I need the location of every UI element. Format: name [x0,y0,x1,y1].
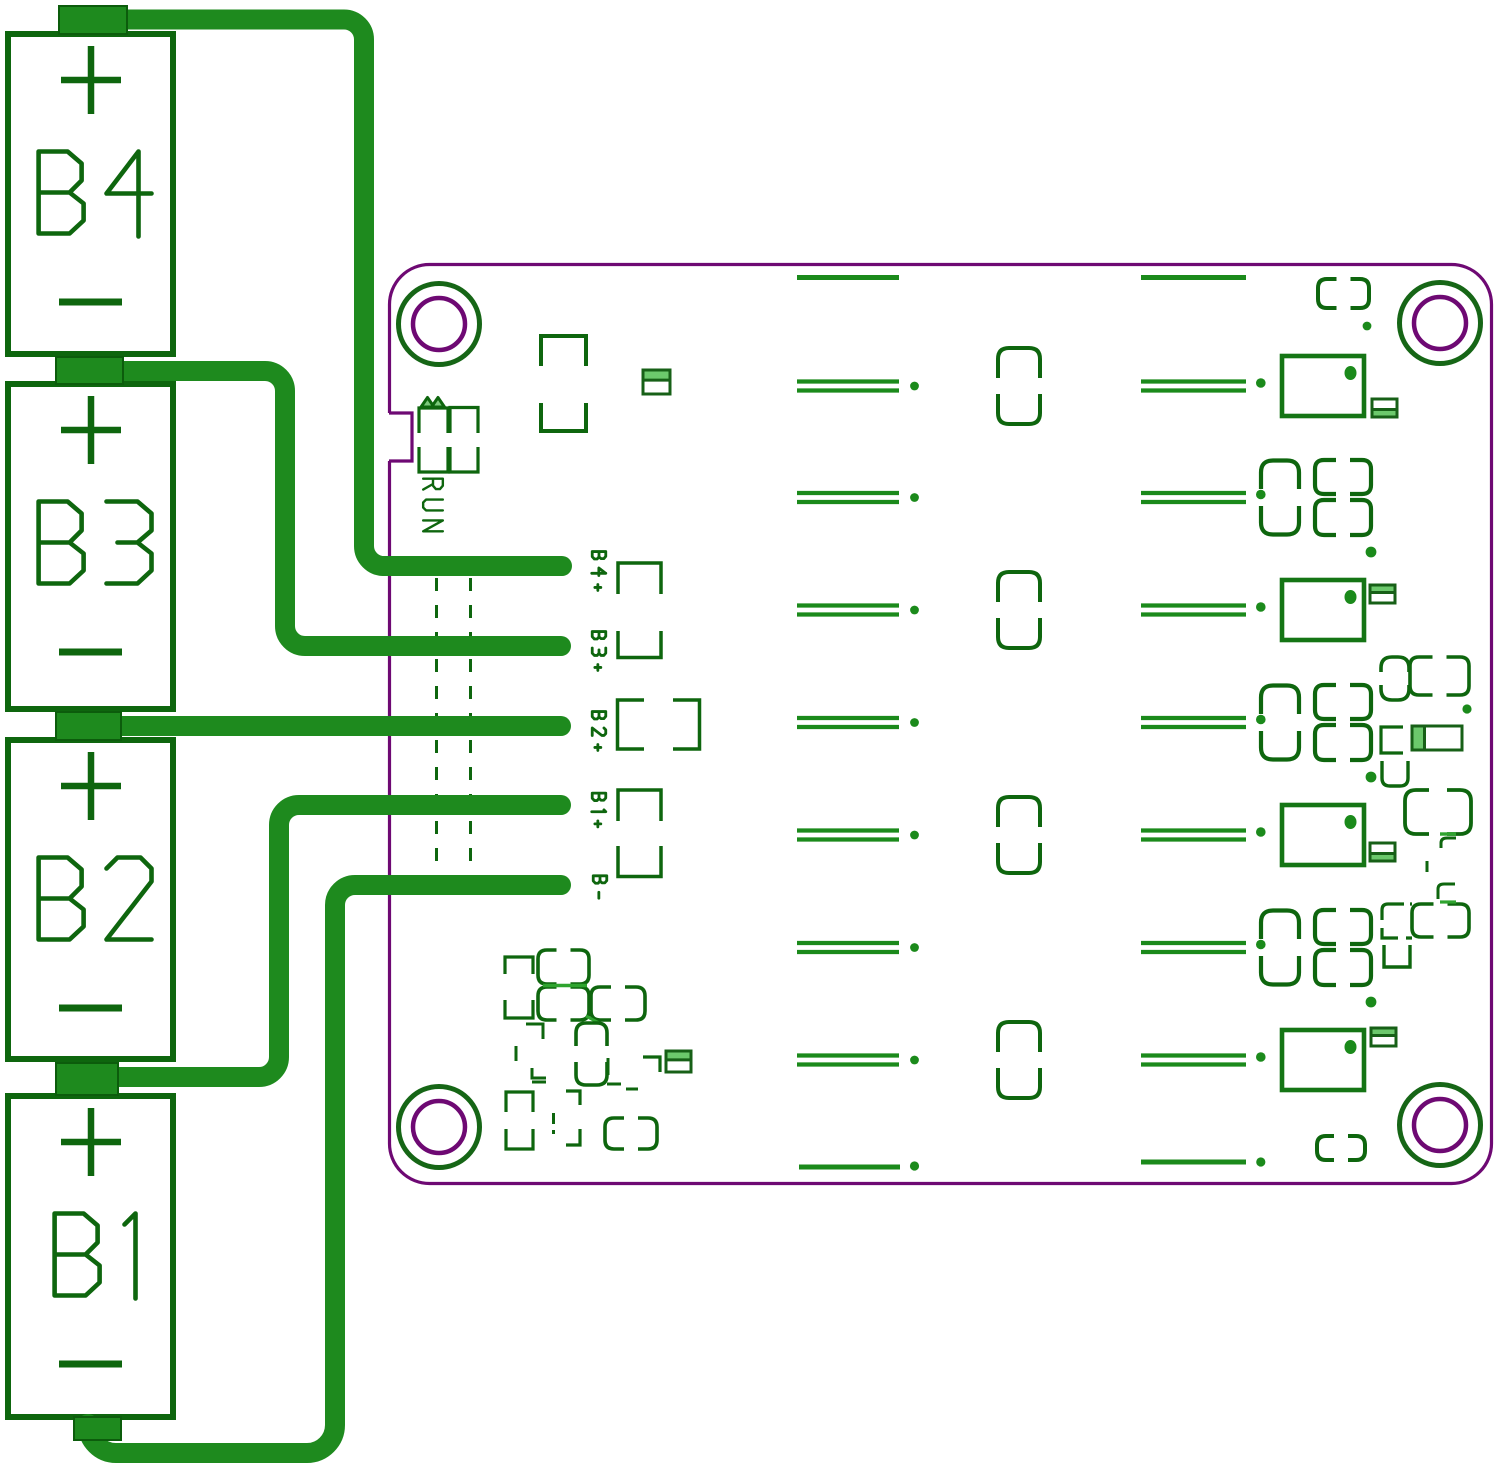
pad B3+ [618,631,661,658]
silk double line left y386 [797,382,919,391]
battery B4 minus symbol [59,299,122,306]
wire B3+ net [75,371,561,646]
silk dash b [1438,884,1455,899]
battery B2 body [8,740,173,1059]
silk line top-left [797,275,899,280]
Q1 pin mark [1440,832,1456,835]
silk double line right y722 [1141,715,1266,727]
B3 positive terminal tab [56,357,123,384]
junction dot y947 [1366,997,1377,1008]
silk double line right y610 [1141,602,1266,614]
label B4+ [592,552,606,591]
pad pair bl-6 [605,1118,657,1149]
silk dash a [1426,861,1429,872]
mounting hole H1 [399,284,480,365]
pad B2+ left [618,700,645,749]
bracket bl-4 [516,1024,546,1082]
pad B- [618,846,661,877]
silk double line left y610 [797,606,919,615]
pad B2+ right [673,700,700,749]
bright mark cluster2 [1440,900,1456,903]
silk line bottom-right [1141,1157,1265,1166]
label RUN [423,479,443,532]
IC U3 courtyard [1382,904,1412,938]
bright link bl-1 [543,984,587,988]
silk corner a [1441,838,1456,848]
IC U2 courtyard [1381,657,1409,700]
dual pad courtyard y947 [1315,910,1371,985]
battery B1 plus symbol [61,1108,121,1176]
battery B4 label [39,152,152,237]
pad B4+ [618,563,661,594]
dashed courtyard line 2 [469,578,472,898]
mounting hole H2 [1400,283,1481,364]
capacitor courtyard bl [576,1023,607,1085]
resistor R y386 [1282,356,1364,416]
silk double line right y835 [1141,827,1266,839]
diode courtyard y497 [1261,461,1299,535]
bright link bl-2 [586,1016,599,1023]
IC U4 courtyard [505,957,533,1018]
bracket below R7 [1382,761,1408,786]
pad pair right cluster2 [1412,904,1469,937]
silk double line left y497 [797,493,919,502]
pad pair bl-1 [538,950,589,984]
capacitor courtyard mid y610 [998,572,1040,648]
diode courtyard y947 [1261,911,1299,985]
pad pair right of U2 [1410,657,1469,695]
capacitor courtyard bottom-right [1317,1136,1365,1160]
label B2+ [592,712,606,751]
small pad component y386 [1372,399,1397,417]
battery B2 label [39,858,152,940]
battery B1 body [8,1096,173,1417]
battery B1 minus symbol [59,1361,122,1368]
wire B4+ net [75,20,562,567]
IC U5 courtyard [506,1092,533,1149]
dashed courtyard line 1 [435,578,438,898]
battery B3 plus symbol [61,396,121,464]
pad pair bl-3 [591,987,645,1020]
small pad component y835 [1370,843,1395,861]
bracket below cluster2 [1384,945,1410,967]
small pad component bl [666,1051,691,1072]
switch SW1 body [419,408,478,473]
resistor R y1060 [1282,1030,1364,1090]
pad pair bl-2 [538,987,589,1020]
label B3+ [592,632,606,671]
B1 negative terminal tab [74,1417,121,1440]
connector J2 courtyard [541,336,586,431]
junction dot y722 [1366,772,1377,783]
resistor R y835 [1282,805,1364,865]
diode courtyard y722 [1261,686,1299,760]
battery B4 body [8,34,173,354]
silk double line left y1060 [797,1056,919,1065]
mounting hole H4 [1400,1085,1481,1166]
silk bits bl [607,1058,621,1084]
battery B2 minus symbol [59,1005,122,1012]
capacitor courtyard mid y386 [998,348,1040,424]
PCB board outline [390,265,1492,1184]
bracket bl5 [566,1091,580,1145]
silk double line left y835 [797,831,919,840]
label B1+ [592,793,606,827]
dual pad courtyard y722 [1315,685,1371,760]
board edge notch for RUN switch [385,413,412,461]
B4 positive terminal tab [59,6,127,34]
dot right cluster [1462,704,1471,713]
capacitor courtyard top-right [1318,279,1369,308]
mounting hole H3 [399,1087,480,1168]
battery B3 body [8,384,173,709]
silk double line right y386 [1141,378,1266,390]
B1 positive terminal tab [56,1063,118,1095]
silk double line right y497 [1141,490,1266,502]
silk double line left y722 [797,718,919,727]
corner bracket bl [643,1057,660,1072]
silk double line right y947 [1141,940,1266,952]
transistor Q1 courtyard [1405,790,1471,834]
silk line bottom-left [799,1161,919,1170]
dual pad courtyard y497 [1315,460,1371,535]
wire B1+ net [75,805,561,1077]
battery B3 label [39,502,152,584]
junction dot y497 [1366,547,1377,558]
pad left of R7 [1381,727,1403,753]
wire B2+ net [75,716,561,736]
B2 positive terminal tab [56,712,121,740]
capacitor courtyard mid y835 [998,797,1040,873]
small pad component y610 [1370,585,1395,603]
switch SW1 actuator [421,398,445,408]
silk dash bl [626,1088,638,1091]
battery B1 label [55,1214,136,1299]
silk line top-right [1141,275,1246,280]
silk double line left y947 [797,943,919,952]
small pad component y1060 [1371,1028,1396,1046]
pad B1+ [618,790,661,821]
silk double line right y1060 [1141,1052,1266,1064]
capacitor courtyard mid y1060 [998,1022,1040,1098]
small pad component top-left [643,370,670,394]
battery B3 minus symbol [59,649,122,656]
resistor R7 [1412,726,1462,750]
dot top-right [1363,322,1372,331]
silk dash bl2 [552,1113,555,1134]
battery B4 plus symbol [61,46,121,114]
battery B2 plus symbol [61,752,121,820]
wire B- net [88,885,561,1453]
resistor R y610 [1282,580,1364,640]
label B- [593,876,607,898]
